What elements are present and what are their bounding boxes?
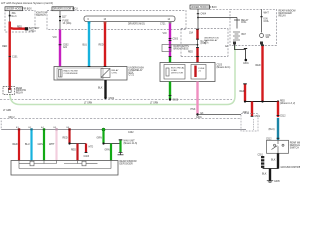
svg-text:RED: RED <box>63 137 68 140</box>
svg-text:SW: SW <box>266 37 271 39</box>
svg-text:SWITCH: SWITCH <box>290 147 299 149</box>
svg-text:13 (10A): 13 (10A) <box>63 22 72 25</box>
svg-text:BLK: BLK <box>98 87 103 90</box>
svg-text:RED: RED <box>2 45 7 48</box>
svg-text:WHT: WHT <box>264 13 270 15</box>
svg-text:(Moano 11-6): (Moano 11-6) <box>124 143 138 145</box>
svg-text:WHT: WHT <box>49 143 55 146</box>
svg-text:BLU: BLU <box>83 44 88 47</box>
svg-text:GRN: GRN <box>97 137 103 140</box>
svg-text:GRN: GRN <box>105 150 110 152</box>
svg-text:VIO: VIO <box>163 32 167 35</box>
svg-text:C402: C402 <box>128 132 134 134</box>
svg-text:BAT: BAT <box>242 33 247 36</box>
svg-text:G503: G503 <box>173 100 179 102</box>
svg-text:A21: A21 <box>63 46 68 49</box>
svg-text:BLK: BLK <box>262 173 267 176</box>
svg-text:(15A): (15A) <box>201 42 207 45</box>
svg-text:LT GRN: LT GRN <box>84 103 93 105</box>
svg-text:COIL: COIL <box>264 21 270 23</box>
svg-text:BLU: BLU <box>25 143 30 146</box>
svg-text:Q17: Q17 <box>62 17 67 19</box>
svg-text:BLK: BLK <box>271 159 276 162</box>
svg-text:RED: RED <box>99 44 104 47</box>
svg-text:VIO: VIO <box>53 36 57 39</box>
svg-text:SWITCH: SWITCH <box>36 14 46 17</box>
svg-text:A22: A22 <box>243 111 248 114</box>
svg-text:MICU: MICU <box>9 117 15 119</box>
svg-text:CTRL: CTRL <box>112 72 118 74</box>
svg-text:GRN: GRN <box>38 143 44 146</box>
svg-text:RED: RED <box>256 64 261 67</box>
svg-text:G601: G601 <box>196 117 202 119</box>
svg-text:(BLU): (BLU) <box>269 129 275 131</box>
svg-text:C721: C721 <box>160 24 166 26</box>
svg-text:DRIVER'S DOOR MICU: DRIVER'S DOOR MICU <box>53 9 78 11</box>
svg-text:LINE: LINE <box>29 30 35 32</box>
svg-text:GROUND DISTRIBUTION: GROUND DISTRIBUTION <box>281 167 301 169</box>
svg-text:CONDENSER: CONDENSER <box>64 73 78 75</box>
svg-text:(Moano 22-1): (Moano 22-1) <box>217 67 231 69</box>
svg-text:C512: C512 <box>280 116 286 118</box>
svg-text:LT GRN: LT GRN <box>150 103 159 105</box>
svg-text:C501: C501 <box>255 116 261 118</box>
svg-text:C721: C721 <box>129 75 135 77</box>
svg-text:C503: C503 <box>173 38 179 40</box>
svg-text:C101: C101 <box>12 57 18 59</box>
svg-text:G501: G501 <box>243 63 249 65</box>
svg-text:UNDER-HOOD F/R BOX: UNDER-HOOD F/R BOX <box>6 9 32 11</box>
svg-text:RED: RED <box>71 150 76 152</box>
svg-text:PNK: PNK <box>191 108 196 111</box>
svg-text:RED: RED <box>240 90 245 93</box>
svg-text:RED: RED <box>17 27 22 29</box>
svg-text:RELAY: RELAY <box>279 14 287 17</box>
svg-text:No.3: No.3 <box>12 16 18 18</box>
svg-text:15A: 15A <box>189 32 194 35</box>
svg-text:A/T with Keyless Access System: A/T with Keyless Access System (cont'd) <box>1 1 53 5</box>
svg-text:DEFOGGER: DEFOGGER <box>120 163 133 165</box>
svg-text:DETECTOR: DETECTOR <box>171 72 183 74</box>
svg-text:HTD: HTD <box>89 147 94 149</box>
svg-text:RELAY: RELAY <box>16 92 24 95</box>
svg-text:C403: C403 <box>84 156 90 158</box>
svg-text:RED: RED <box>188 52 193 54</box>
svg-text:30A: 30A <box>12 12 17 15</box>
svg-text:LT GRN: LT GRN <box>3 110 12 112</box>
svg-text:G605: G605 <box>274 181 280 183</box>
svg-text:COIL: COIL <box>241 22 247 24</box>
svg-text:(Moano A-3, 2): (Moano A-3, 2) <box>280 102 295 105</box>
svg-text:DRIVER'S MICU: DRIVER'S MICU <box>128 24 145 26</box>
svg-text:C404: C404 <box>201 14 207 16</box>
svg-text:UNDER-HOOD F/R BOX: UNDER-HOOD F/R BOX <box>191 7 217 9</box>
svg-text:G502: G502 <box>109 98 115 100</box>
svg-text:RED: RED <box>13 143 18 146</box>
svg-text:C551: C551 <box>258 155 264 157</box>
